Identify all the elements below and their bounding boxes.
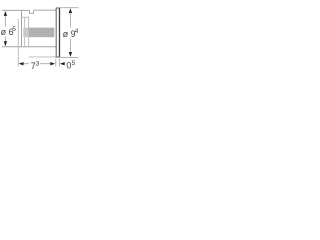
dimension 05 plate ext lines bbox=[56, 59, 60, 67]
dimension 73 bbox=[23, 63, 51, 65]
arrow 73 right bbox=[50, 62, 55, 65]
cover plate right face bbox=[59, 8, 61, 58]
cover plate top edge bbox=[56, 7, 60, 9]
svg-text:3: 3 bbox=[36, 60, 40, 67]
wire: inner vertical 2 bbox=[28, 17, 30, 47]
arrow o94 down bbox=[69, 52, 72, 57]
arrow o94 up bbox=[69, 8, 72, 13]
dimension o94 ext lines bbox=[61, 8, 79, 58]
wire: back wall bbox=[21, 10, 23, 46]
housing box (section view) bbox=[2, 10, 56, 47]
wire: bottom edge + ext line o65 bottom bbox=[2, 46, 56, 48]
wire: inner top line bbox=[22, 16, 30, 18]
wire: plate back line lower bbox=[29, 56, 56, 58]
piston gray band dark part bbox=[29, 28, 55, 38]
background bbox=[0, 0, 80, 80]
arrow 05 left-pointing bbox=[60, 62, 65, 65]
wire: top edge right bbox=[34, 9, 57, 11]
svg-text:5: 5 bbox=[72, 60, 76, 67]
svg-text:5: 5 bbox=[12, 26, 16, 33]
svg-text:4: 4 bbox=[75, 28, 79, 35]
svg-text:ø 9: ø 9 bbox=[63, 29, 76, 39]
arrow o65 up bbox=[4, 11, 7, 16]
wire: top edge left + ext line o65 top bbox=[2, 9, 30, 11]
cover plate bottom edge bbox=[56, 56, 60, 58]
piston gray band light part bbox=[23, 28, 29, 37]
dimension o65 dim line bbox=[4, 16, 6, 42]
wire: dim line o94 bbox=[69, 14, 71, 28]
wire: top notch bbox=[30, 10, 34, 13]
cover plate left face bbox=[55, 8, 57, 57]
wire: inner vertical 1 bbox=[24, 17, 26, 47]
arrow o65 down bbox=[4, 41, 7, 46]
wire: back cap / 73 ext line left bbox=[17, 19, 19, 66]
arrow 73 left bbox=[19, 62, 24, 65]
